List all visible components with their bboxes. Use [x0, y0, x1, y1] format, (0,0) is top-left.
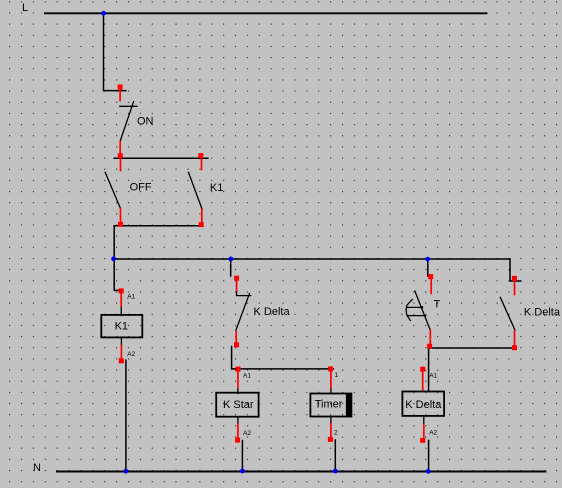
- svg-text:A2: A2: [127, 351, 135, 358]
- svg-text:N: N: [33, 462, 41, 474]
- svg-text:K Star: K Star: [223, 399, 254, 411]
- svg-text:ON: ON: [137, 115, 154, 127]
- svg-text:1: 1: [335, 372, 339, 379]
- svg-text:T: T: [434, 298, 441, 310]
- svg-text:K Delta: K Delta: [405, 399, 442, 411]
- svg-text:2: 2: [334, 430, 338, 437]
- svg-text:K1: K1: [115, 320, 128, 332]
- svg-text:A1: A1: [429, 372, 437, 379]
- svg-text:L: L: [22, 2, 28, 14]
- svg-text:A2: A2: [429, 430, 437, 437]
- svg-text:Timer: Timer: [315, 399, 343, 411]
- svg-text:K1: K1: [210, 182, 223, 194]
- svg-text:K Delta: K Delta: [524, 306, 561, 318]
- svg-text:OFF: OFF: [130, 182, 152, 194]
- svg-text:A1: A1: [243, 372, 251, 379]
- svg-text:A2: A2: [243, 430, 251, 437]
- svg-text:A1: A1: [127, 294, 135, 301]
- svg-text:K Delta: K Delta: [254, 306, 291, 318]
